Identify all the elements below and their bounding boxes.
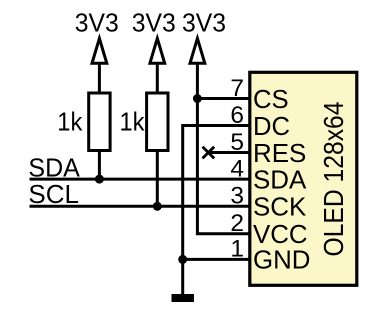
- power arrow 3V3 (col 1): [92, 38, 107, 91]
- resistor R1: [89, 93, 110, 151]
- wire SCL to pin 3: [30, 205, 250, 208]
- svg-text:OLED 128x64: OLED 128x64: [318, 102, 349, 257]
- wire GND pin 1: [183, 258, 249, 261]
- svg-text:RES: RES: [253, 138, 306, 168]
- svg-text:3V3: 3V3: [75, 8, 119, 38]
- power arrow 3V3 (col 2): [150, 38, 165, 91]
- resistor R2: [147, 93, 168, 151]
- wire ground stem: [181, 259, 184, 294]
- svg-text:CS: CS: [253, 84, 289, 114]
- power arrow 3V3 (col 3): [190, 38, 205, 98]
- wire CS pin 7 to 3V3: [197, 97, 249, 100]
- IC U1 OLED module body: [250, 72, 357, 285]
- svg-text:2: 2: [230, 210, 244, 237]
- svg-text:4: 4: [230, 155, 244, 182]
- svg-text:3V3: 3V3: [182, 8, 226, 38]
- junction node 3V3/CS: [193, 94, 202, 103]
- svg-text:3V3: 3V3: [132, 8, 176, 38]
- wire R1 bottom lead to SDA: [98, 151, 101, 180]
- svg-text:5: 5: [230, 129, 244, 156]
- svg-text:3: 3: [230, 183, 244, 210]
- junction node GND/DC: [178, 255, 187, 264]
- wire R2 bottom lead to SCL: [156, 151, 159, 207]
- svg-text:1k: 1k: [120, 107, 146, 137]
- wire 3V3 col3 vertical to VCC: [197, 99, 249, 234]
- svg-text:6: 6: [230, 102, 244, 129]
- wire SDA to pin 4: [30, 178, 250, 181]
- no-connect X on pin 5: [203, 147, 215, 159]
- svg-text:SCL: SCL: [28, 179, 79, 209]
- svg-text:1k: 1k: [57, 107, 83, 137]
- ground symbol: [172, 294, 195, 302]
- wire DC pin 6 down to ground net: [183, 126, 249, 260]
- svg-text:7: 7: [230, 75, 244, 102]
- svg-text:GND: GND: [253, 245, 311, 275]
- junction node SCL/R2: [153, 202, 162, 211]
- svg-text:DC: DC: [253, 111, 290, 141]
- junction node SDA/R1: [95, 175, 104, 184]
- svg-text:SDA: SDA: [253, 164, 307, 194]
- wire RES pin 5 stub: [208, 151, 249, 154]
- svg-text:1: 1: [230, 236, 244, 263]
- svg-text:SCK: SCK: [253, 192, 307, 222]
